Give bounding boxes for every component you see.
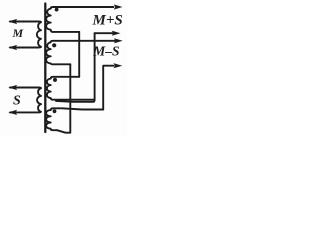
svg-text:M+S: M+S: [92, 13, 123, 29]
svg-text:M–S: M–S: [92, 44, 119, 59]
svg-text:S: S: [13, 94, 21, 109]
svg-text:M: M: [12, 26, 24, 40]
